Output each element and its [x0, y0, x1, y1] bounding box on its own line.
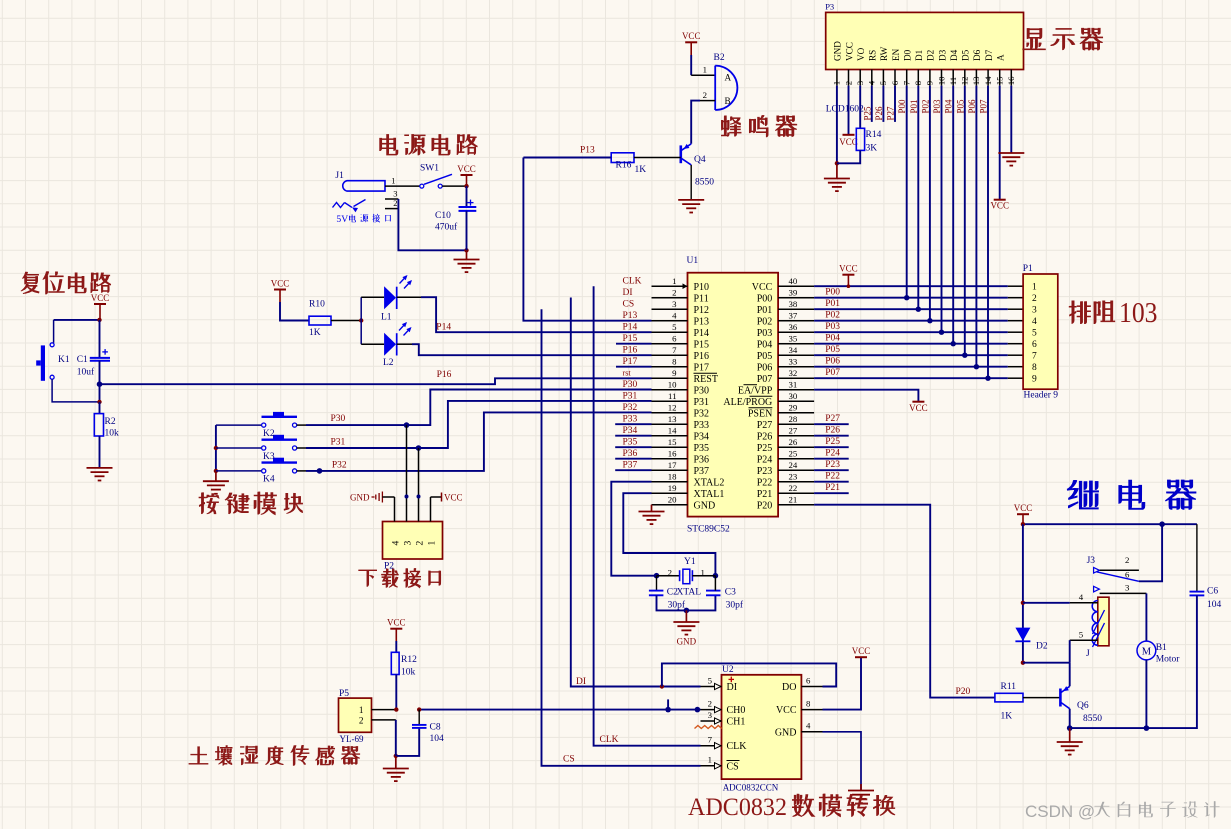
svg-text:GND: GND [694, 501, 716, 512]
svg-text:P07: P07 [757, 374, 773, 385]
svg-text:15: 15 [668, 437, 677, 447]
svg-text:P32: P32 [332, 461, 347, 471]
svg-text:30pf: 30pf [726, 599, 744, 610]
svg-text:R12: R12 [401, 655, 417, 665]
svg-text:VCC: VCC [91, 293, 110, 303]
svg-text:16: 16 [668, 449, 677, 459]
svg-text:P01: P01 [909, 99, 919, 113]
svg-text:GND: GND [833, 41, 843, 61]
svg-text:5: 5 [878, 80, 888, 85]
svg-text:13: 13 [668, 414, 677, 424]
svg-text:104: 104 [1207, 600, 1222, 610]
svg-text:11: 11 [948, 77, 958, 85]
svg-text:CS: CS [727, 761, 739, 772]
svg-text:26: 26 [789, 437, 798, 447]
svg-text:P07: P07 [825, 368, 840, 378]
svg-text:6: 6 [806, 675, 811, 685]
svg-text:ADC0832CCN: ADC0832CCN [723, 783, 779, 793]
svg-text:P31: P31 [623, 392, 638, 402]
svg-text:P25: P25 [825, 437, 840, 447]
svg-text:DO: DO [782, 682, 796, 693]
svg-text:B: B [725, 96, 731, 106]
svg-text:17: 17 [668, 460, 677, 470]
svg-text:2: 2 [1032, 294, 1037, 304]
svg-text:470uf: 470uf [435, 222, 458, 233]
svg-text:ALE/PROG: ALE/PROG [723, 397, 772, 408]
svg-text:P02: P02 [757, 317, 773, 328]
svg-text:8550: 8550 [695, 178, 714, 188]
svg-text:P02: P02 [825, 311, 840, 321]
svg-text:P20: P20 [757, 501, 773, 512]
svg-text:7: 7 [672, 345, 677, 355]
svg-text:D4: D4 [949, 49, 959, 61]
svg-text:12: 12 [668, 403, 677, 413]
svg-text:33: 33 [789, 357, 798, 367]
svg-text:VCC: VCC [839, 137, 858, 147]
svg-text:1: 1 [701, 568, 705, 578]
svg-text:P37: P37 [623, 461, 638, 471]
svg-text:D1: D1 [914, 49, 924, 61]
svg-text:P01: P01 [757, 305, 773, 316]
svg-text:39: 39 [789, 288, 798, 298]
svg-text:D2: D2 [1036, 642, 1048, 652]
svg-text:U2: U2 [722, 665, 734, 675]
svg-text:1: 1 [832, 81, 842, 85]
svg-text:P05: P05 [825, 345, 840, 355]
svg-text:5: 5 [1079, 630, 1084, 640]
svg-text:2: 2 [672, 288, 676, 298]
svg-text:2: 2 [359, 716, 364, 726]
svg-text:20: 20 [668, 495, 677, 505]
svg-text:K2: K2 [263, 429, 275, 439]
svg-text:P30: P30 [331, 414, 346, 424]
svg-text:104: 104 [430, 734, 445, 744]
svg-text:P36: P36 [623, 449, 638, 459]
svg-text:10k: 10k [401, 668, 416, 678]
svg-text:3: 3 [393, 188, 397, 198]
svg-text:P37: P37 [694, 466, 710, 477]
svg-text:M: M [1142, 647, 1152, 658]
svg-text:5: 5 [708, 675, 713, 685]
svg-text:10: 10 [936, 76, 946, 85]
svg-text:P32: P32 [694, 409, 710, 420]
svg-text:C10: C10 [435, 211, 451, 221]
svg-text:4: 4 [1079, 592, 1084, 602]
svg-text:7: 7 [708, 735, 713, 745]
svg-text:P21: P21 [757, 489, 773, 500]
svg-text:22: 22 [789, 483, 798, 493]
svg-text:5: 5 [1032, 329, 1037, 339]
svg-text:35: 35 [789, 334, 798, 344]
svg-text:23: 23 [789, 472, 798, 482]
svg-text:8: 8 [806, 698, 811, 708]
svg-text:P23: P23 [825, 460, 840, 470]
svg-text:2: 2 [1125, 555, 1129, 565]
svg-text:D5: D5 [961, 49, 971, 61]
svg-text:1: 1 [428, 541, 438, 546]
svg-text:D7: D7 [984, 49, 994, 61]
svg-text:D0: D0 [903, 49, 913, 61]
svg-text:30: 30 [789, 391, 798, 401]
svg-text:CLK: CLK [600, 735, 619, 745]
svg-text:40: 40 [789, 276, 798, 286]
svg-text:VCC: VCC [776, 705, 797, 716]
svg-text:P35: P35 [694, 443, 710, 454]
svg-text:1: 1 [703, 65, 707, 75]
svg-text:P14: P14 [694, 328, 710, 339]
svg-text:P26: P26 [825, 426, 840, 436]
svg-text:VCC: VCC [909, 403, 928, 413]
svg-text:1: 1 [359, 705, 364, 715]
svg-text:P24: P24 [825, 449, 840, 459]
svg-text:Header 9: Header 9 [1024, 391, 1059, 401]
svg-text:P25: P25 [862, 106, 872, 121]
svg-text:3: 3 [1032, 306, 1037, 316]
svg-text:14: 14 [668, 426, 677, 436]
svg-text:RS: RS [868, 50, 878, 61]
svg-text:Q6: Q6 [1077, 701, 1089, 711]
svg-text:K3: K3 [263, 452, 275, 462]
svg-text:9: 9 [925, 80, 935, 85]
svg-text:P00: P00 [897, 99, 907, 114]
svg-text:CS: CS [563, 755, 575, 765]
svg-text:P31: P31 [331, 438, 346, 448]
svg-text:C8: C8 [430, 723, 441, 733]
svg-text:8550: 8550 [1083, 714, 1102, 724]
svg-text:C1: C1 [77, 355, 88, 365]
svg-text:8: 8 [672, 357, 677, 367]
svg-text:J: J [1086, 649, 1090, 659]
svg-text:D3: D3 [937, 49, 947, 61]
svg-text:P26: P26 [757, 432, 773, 443]
svg-text:P30: P30 [694, 386, 710, 397]
svg-text:4: 4 [867, 80, 877, 85]
svg-text:J3: J3 [1087, 556, 1096, 566]
svg-text:PSEN: PSEN [748, 409, 772, 420]
svg-text:P16: P16 [437, 370, 452, 380]
svg-text:4: 4 [806, 721, 811, 731]
svg-text:1: 1 [708, 755, 712, 765]
svg-text:1K: 1K [1001, 712, 1013, 722]
svg-text:3: 3 [1125, 582, 1130, 592]
svg-text:P33: P33 [694, 420, 710, 431]
svg-text:P03: P03 [932, 99, 942, 114]
svg-text:27: 27 [789, 426, 798, 436]
svg-text:XTAL2: XTAL2 [694, 478, 725, 489]
svg-text:36: 36 [789, 322, 798, 332]
svg-text:2: 2 [416, 541, 426, 546]
svg-text:1K: 1K [635, 165, 647, 175]
svg-text:VCC: VCC [839, 264, 858, 274]
svg-text:P06: P06 [967, 99, 977, 114]
svg-text:ADC0832: ADC0832 [688, 794, 787, 821]
svg-text:REST: REST [694, 374, 718, 385]
svg-text:P03: P03 [757, 328, 773, 339]
svg-text:D6: D6 [972, 49, 982, 61]
svg-text:15: 15 [995, 76, 1005, 85]
svg-text:R14: R14 [866, 130, 882, 140]
svg-text:P23: P23 [757, 466, 773, 477]
svg-text:P1: P1 [1023, 264, 1033, 274]
svg-text:CLK: CLK [623, 277, 642, 287]
svg-text:12: 12 [960, 77, 970, 86]
svg-text:38: 38 [789, 299, 798, 309]
svg-text:P24: P24 [757, 455, 773, 466]
svg-text:VCC: VCC [852, 646, 871, 656]
svg-text:Y1: Y1 [684, 557, 696, 567]
svg-text:2: 2 [703, 90, 707, 100]
svg-text:6: 6 [890, 80, 900, 85]
svg-text:VCC: VCC [457, 164, 476, 174]
svg-text:1: 1 [1032, 283, 1037, 293]
svg-text:1: 1 [391, 176, 395, 186]
svg-text:VCC: VCC [387, 618, 406, 628]
svg-text:CH0: CH0 [727, 705, 746, 716]
svg-text:3: 3 [404, 541, 414, 546]
svg-text:3: 3 [708, 710, 713, 720]
svg-text:24: 24 [789, 460, 798, 470]
svg-text:P13: P13 [623, 311, 638, 321]
svg-text:C3: C3 [725, 588, 736, 598]
svg-text:P21: P21 [825, 483, 840, 493]
svg-text:3: 3 [855, 80, 865, 85]
svg-text:VCC: VCC [990, 201, 1009, 211]
svg-text:RW: RW [879, 46, 889, 61]
svg-text:P16: P16 [623, 346, 638, 356]
svg-text:A: A [725, 73, 732, 83]
svg-text:P12: P12 [694, 305, 710, 316]
svg-text:3K: 3K [866, 144, 878, 154]
svg-text:P04: P04 [757, 340, 773, 351]
svg-text:STC89C52: STC89C52 [687, 525, 730, 535]
svg-text:VCC: VCC [752, 282, 773, 293]
svg-text:30pf: 30pf [668, 599, 686, 610]
svg-text:29: 29 [789, 403, 798, 413]
svg-text:R2: R2 [105, 417, 116, 427]
svg-text:P20: P20 [956, 687, 971, 697]
svg-text:5V: 5V [336, 214, 348, 225]
svg-text:P04: P04 [825, 334, 840, 344]
svg-text:P30: P30 [623, 380, 638, 390]
svg-text:11: 11 [668, 391, 676, 401]
svg-text:YL-69: YL-69 [340, 734, 364, 744]
svg-text:P27: P27 [886, 106, 896, 121]
svg-text:P27: P27 [757, 420, 773, 431]
svg-text:P06: P06 [757, 363, 773, 374]
svg-text:P15: P15 [694, 340, 710, 351]
svg-text:P16: P16 [694, 351, 710, 362]
svg-text:Motor: Motor [1156, 655, 1181, 665]
svg-text:8: 8 [913, 80, 923, 85]
svg-text:GND: GND [677, 637, 697, 647]
svg-text:6: 6 [1125, 569, 1130, 579]
svg-text:1K: 1K [309, 328, 321, 338]
svg-text:P00: P00 [757, 294, 773, 305]
svg-text:K4: K4 [263, 475, 275, 485]
svg-text:37: 37 [789, 311, 798, 321]
svg-text:GND: GND [775, 727, 797, 738]
svg-text:VCC: VCC [444, 493, 463, 503]
svg-text:A: A [996, 54, 1006, 61]
svg-text:P05: P05 [757, 351, 773, 362]
svg-text:2: 2 [668, 568, 672, 578]
svg-text:XTAL: XTAL [677, 588, 702, 598]
svg-text:P17: P17 [623, 357, 638, 367]
svg-text:9: 9 [672, 368, 677, 378]
svg-text:P06: P06 [825, 357, 840, 367]
svg-text:P35: P35 [623, 438, 638, 448]
svg-text:C6: C6 [1207, 587, 1218, 597]
svg-text:2: 2 [393, 198, 397, 208]
svg-text:18: 18 [668, 472, 677, 482]
svg-text:P31: P31 [694, 397, 710, 408]
svg-text:CH1: CH1 [727, 717, 746, 728]
svg-text:DI: DI [576, 677, 586, 687]
svg-text:D2: D2 [926, 49, 936, 61]
svg-text:P04: P04 [944, 99, 954, 114]
svg-text:7: 7 [1032, 352, 1037, 362]
svg-text:B1: B1 [1156, 643, 1167, 653]
svg-text:P14: P14 [623, 323, 638, 333]
svg-text:4: 4 [1032, 317, 1037, 327]
svg-text:P13: P13 [580, 146, 595, 156]
svg-text:P26: P26 [874, 106, 884, 121]
svg-text:P5: P5 [339, 689, 349, 699]
svg-text:2: 2 [708, 698, 712, 708]
svg-text:P36: P36 [694, 455, 710, 466]
svg-text:P10: P10 [694, 282, 710, 293]
svg-text:3: 3 [672, 299, 677, 309]
svg-text:L2: L2 [383, 358, 394, 368]
svg-text:P25: P25 [757, 443, 773, 454]
svg-text:VCC: VCC [1014, 503, 1033, 513]
svg-text:B2: B2 [714, 53, 725, 63]
svg-text:K1: K1 [58, 355, 70, 365]
svg-text:P22: P22 [825, 472, 840, 482]
svg-text:10k: 10k [105, 429, 120, 439]
svg-text:6: 6 [1032, 340, 1037, 350]
svg-text:R10: R10 [309, 300, 325, 310]
svg-text:14: 14 [983, 76, 993, 85]
svg-text:P3: P3 [825, 2, 834, 12]
svg-text:P14: P14 [436, 323, 451, 333]
svg-text:R16: R16 [616, 161, 632, 171]
svg-text:DI: DI [727, 682, 738, 693]
svg-text:5: 5 [672, 322, 677, 332]
svg-text:R11: R11 [1001, 682, 1017, 692]
svg-text:P32: P32 [623, 403, 638, 413]
svg-text:25: 25 [789, 449, 798, 459]
svg-text:21: 21 [789, 495, 798, 505]
svg-text:32: 32 [789, 368, 798, 378]
svg-text:P11: P11 [694, 294, 709, 305]
svg-text:P03: P03 [825, 322, 840, 332]
svg-text:P07: P07 [979, 99, 989, 114]
svg-text:P05: P05 [955, 99, 965, 114]
svg-text:DI: DI [623, 288, 633, 298]
svg-text:31: 31 [789, 380, 798, 390]
svg-text:P17: P17 [694, 363, 710, 374]
svg-text:P01: P01 [825, 299, 840, 309]
svg-text:2: 2 [843, 81, 853, 85]
svg-text:SW1: SW1 [420, 163, 439, 173]
svg-text:P34: P34 [623, 426, 638, 436]
svg-text:Q4: Q4 [694, 155, 706, 165]
svg-text:GND: GND [350, 493, 370, 503]
svg-text:34: 34 [789, 345, 798, 355]
svg-text:VCC: VCC [682, 31, 701, 41]
svg-text:CSDN @: CSDN @ [1025, 802, 1095, 821]
svg-text:XTAL1: XTAL1 [694, 489, 725, 500]
svg-text:13: 13 [971, 76, 981, 85]
svg-text:VCC: VCC [271, 278, 290, 288]
svg-text:P02: P02 [920, 99, 930, 113]
svg-text:28: 28 [789, 414, 798, 424]
svg-text:10: 10 [668, 380, 677, 390]
svg-text:9: 9 [1032, 375, 1037, 385]
svg-text:L1: L1 [381, 313, 392, 323]
svg-text:16: 16 [1006, 76, 1016, 85]
svg-text:103: 103 [1119, 298, 1158, 329]
svg-text:VCC: VCC [844, 42, 854, 61]
svg-text:VO: VO [856, 47, 866, 61]
svg-text:EN: EN [891, 48, 901, 61]
svg-text:CS: CS [623, 300, 635, 310]
svg-text:P34: P34 [694, 432, 710, 443]
svg-text:6: 6 [672, 334, 677, 344]
svg-text:4: 4 [392, 541, 402, 546]
svg-text:10uf: 10uf [77, 366, 95, 377]
svg-text:J1: J1 [335, 171, 344, 181]
svg-text:U1: U1 [687, 256, 699, 266]
svg-text:P27: P27 [825, 414, 840, 424]
svg-text:P33: P33 [623, 415, 638, 425]
svg-text:EA/VPP: EA/VPP [738, 386, 773, 397]
svg-text:7: 7 [902, 80, 912, 85]
svg-text:8: 8 [1032, 363, 1037, 373]
svg-text:4: 4 [672, 311, 677, 321]
svg-text:P00: P00 [825, 288, 840, 298]
svg-text:19: 19 [668, 483, 677, 493]
svg-text:P22: P22 [757, 478, 773, 489]
svg-text:CLK: CLK [727, 741, 748, 752]
svg-text:P13: P13 [694, 317, 710, 328]
svg-text:LCD1602: LCD1602 [826, 105, 864, 115]
svg-text:1: 1 [672, 276, 676, 286]
svg-text:P15: P15 [623, 334, 638, 344]
svg-text:rst: rst [623, 369, 632, 378]
